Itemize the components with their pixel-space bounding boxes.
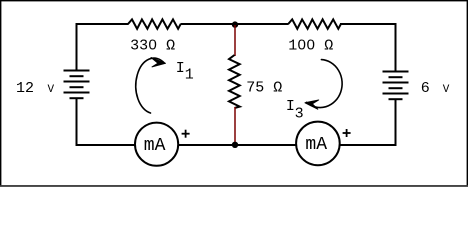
battery V2 6V [383,72,409,100]
wire top-left (battery V1 top to R1) [76,23,129,71]
arrowhead of I1 [151,58,166,67]
svg-text:12: 12 [16,80,34,97]
current arrow I3 (clockwise arc, right loop) [307,60,343,108]
svg-text:I: I [176,60,185,77]
wire middle bottom (R3 to node B, red net) [234,107,236,145]
wire middle top (node A to R3, red net) [234,25,236,56]
resistor R3 75 ohm [229,55,240,108]
wire left (battery V1 bottom to bottom-left corner) [76,98,136,146]
svg-text:1: 1 [185,67,194,84]
wire top-right (R2 to battery V2 top) [340,23,397,72]
svg-text:6: 6 [421,80,430,97]
svg-text:3: 3 [295,105,304,122]
wire bottom-middle (M1 to M2 through node B) [178,144,297,146]
battery V1 12V [64,71,90,99]
arrowhead of I3 [305,100,319,109]
node A (top junction) [232,21,238,27]
svg-text:mA: mA [305,135,327,155]
ammeter M2 [296,122,340,166]
resistor R1 330 ohm [128,19,181,28]
wire top-middle (R1 to R2 through node A) [181,23,289,25]
current arrow I1 (clockwise arc, left loop) [136,58,165,113]
node B (bottom junction) [232,142,238,148]
svg-text:V: V [443,84,450,96]
svg-text:mA: mA [144,136,166,156]
plus sign of M2 [343,129,351,137]
border frame [1,1,468,186]
svg-text:75 Ω: 75 Ω [246,79,282,96]
svg-text:I: I [286,98,295,115]
ammeter M1 [135,123,178,166]
resistor R2 100 ohm [288,19,341,28]
wire right (M2 to battery V2 bottom) [340,99,397,146]
plus sign of M1 [182,130,190,138]
svg-text:V: V [48,84,55,96]
